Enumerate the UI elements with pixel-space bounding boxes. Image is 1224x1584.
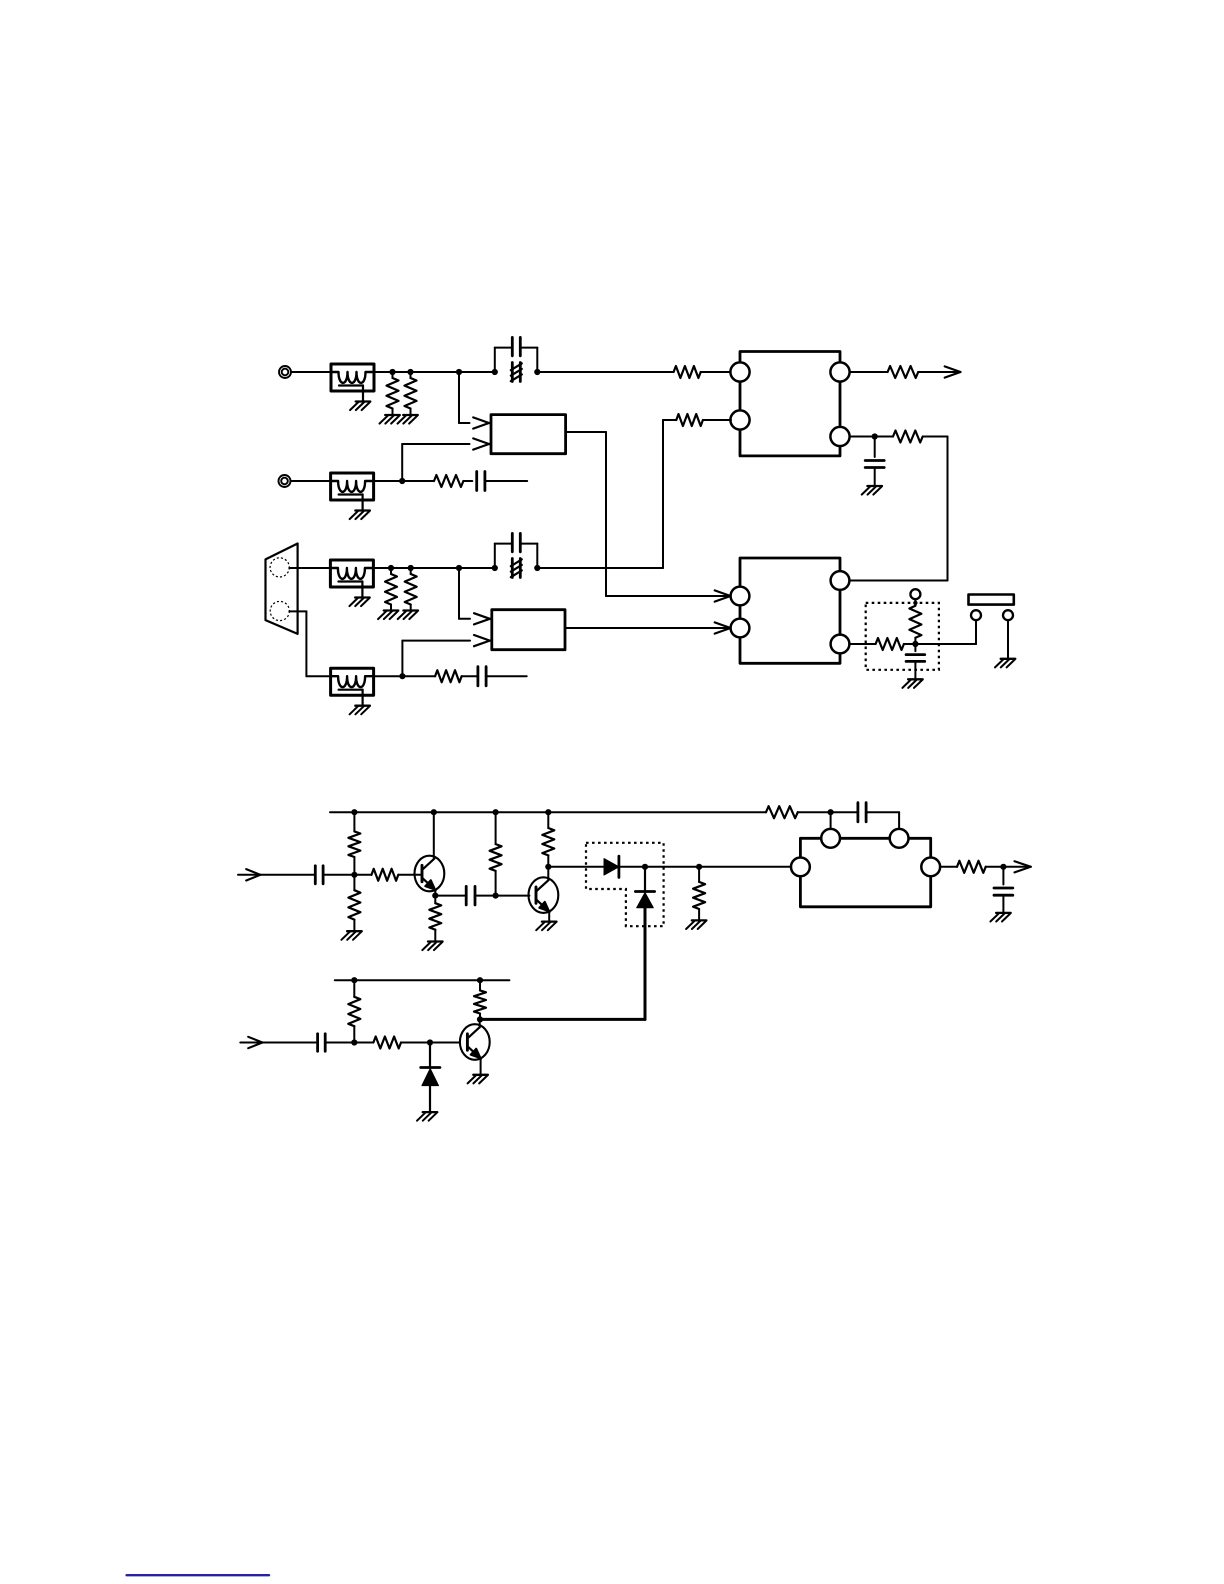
- ground: [422, 942, 442, 951]
- connector J2 (RF input 2): [279, 475, 291, 487]
- wire: [496, 895, 530, 897]
- wire: [701, 371, 731, 373]
- wire: [1007, 620, 1009, 659]
- pin circle FL1-b: [890, 829, 909, 848]
- wire (output 1): [918, 371, 958, 373]
- wire (Q1 collector): [433, 812, 435, 859]
- resistor R17 (Q1 emitter): [429, 896, 441, 942]
- node Q: [493, 893, 499, 899]
- capacitor C8: [315, 866, 323, 884]
- pin circle FL1-in: [791, 858, 810, 877]
- transformer T4: [331, 668, 374, 714]
- wire: [850, 371, 888, 373]
- node T (rail): [545, 809, 551, 815]
- wire (to U1 input 2): [537, 420, 676, 568]
- transformer T3: [330, 560, 373, 606]
- wire (Q3 emitter): [480, 1058, 482, 1075]
- dotted box (filter module): [866, 603, 939, 670]
- pin circle U2-in1: [731, 587, 750, 606]
- pin circle U1-out2: [830, 427, 849, 446]
- node P (emitter): [432, 893, 438, 899]
- resistor R1: [387, 372, 399, 415]
- wire: [374, 480, 434, 482]
- wire (J3 pin2 feed): [289, 611, 330, 676]
- arrow (into U2): [715, 590, 731, 601]
- wire: [374, 371, 495, 373]
- wire (to amp B input 2): [402, 635, 489, 676]
- ground: [862, 486, 882, 495]
- node B (junction R2): [407, 369, 413, 375]
- wire: [850, 436, 893, 438]
- ground: [995, 659, 1015, 668]
- node O (rail): [431, 809, 437, 815]
- transformer T1: [331, 364, 374, 410]
- resistor R24: [474, 980, 486, 1019]
- node AA: [427, 1039, 433, 1045]
- resistor R16 (base series): [372, 869, 399, 881]
- wire: [849, 643, 875, 645]
- resistor R22: [348, 980, 360, 1042]
- node N (rail): [351, 809, 357, 815]
- wire: [462, 675, 478, 677]
- node Y (rail): [477, 977, 483, 983]
- arrow (input 2): [240, 1037, 315, 1048]
- wire (stub): [487, 675, 527, 677]
- switch SW1 bar: [969, 595, 1014, 605]
- wire: [537, 371, 673, 373]
- wire: [291, 371, 331, 373]
- wire (Q2 collector): [547, 867, 549, 881]
- capacitor C6: [906, 644, 925, 679]
- resistor R13 (rail): [766, 806, 798, 818]
- node H (branch to amp B): [456, 565, 462, 571]
- resistor R11: [876, 638, 904, 650]
- terminal circle P1: [971, 610, 981, 620]
- node S (Q2 collector): [545, 864, 551, 870]
- capacitor C7 (rail): [858, 803, 866, 822]
- ground: [398, 415, 418, 424]
- wire: [323, 874, 371, 876]
- resistor R6: [434, 475, 463, 487]
- node M (bias divider): [351, 872, 357, 878]
- resistor R8: [405, 568, 417, 611]
- arrow (RF output): [945, 366, 961, 377]
- wire: [401, 1042, 460, 1044]
- wire: [398, 874, 422, 876]
- capacitor C11: [318, 1034, 326, 1051]
- resistor R21: [957, 861, 986, 873]
- wire: [435, 895, 466, 897]
- resistor R7: [385, 568, 397, 611]
- ground: [417, 1112, 437, 1121]
- transformer T2: [331, 473, 374, 519]
- node C (branch to IF amp): [456, 369, 462, 375]
- filter FL1 (ceramic filter): [800, 838, 930, 907]
- resistor R19: [542, 812, 554, 867]
- resistor R10: [435, 670, 462, 682]
- capacitor C2: [865, 437, 884, 487]
- capacitor C3: [477, 472, 485, 491]
- resistor R23 (base series): [373, 1037, 401, 1049]
- pin circle U1-in2: [730, 410, 749, 429]
- capacitor C5: [478, 667, 486, 686]
- ground: [398, 611, 418, 620]
- pin circle FL1-out: [921, 858, 940, 877]
- wire (Q1 emitter): [434, 890, 436, 896]
- node AB (Q3 collector): [477, 1016, 483, 1022]
- wire (Q2 emitter): [548, 911, 550, 921]
- node L: [828, 809, 834, 815]
- node U (D1/D2 junction): [642, 864, 648, 870]
- node G (junction R8): [408, 565, 414, 571]
- arrow (IF output): [1015, 861, 1031, 872]
- arrow (into U2): [715, 622, 731, 633]
- diode D3: [421, 1043, 440, 1113]
- ground: [536, 922, 556, 931]
- resistor R3: [674, 366, 701, 378]
- wire (stub): [486, 480, 528, 482]
- pin circle U1-out1: [830, 362, 849, 381]
- wire (to amp B input 1): [459, 568, 490, 624]
- resistor R12 (in dotted module): [909, 599, 921, 644]
- pin circle U2-out2: [831, 635, 850, 654]
- wire (D2 to Q3 collector): [480, 908, 645, 1020]
- wire (to U2): [849, 437, 948, 581]
- wire: [619, 866, 645, 868]
- ground: [902, 679, 922, 688]
- footer rule (link underline): [127, 1574, 269, 1576]
- pin circle J3-1: [270, 558, 289, 577]
- wire: [830, 812, 832, 829]
- connector J3 (DIN): [266, 544, 298, 634]
- trap Z1 (ceramic trap + capacitor C1): [492, 337, 541, 381]
- connector J1 (RF input 1): [279, 366, 291, 378]
- diode D2: [635, 867, 654, 908]
- wire: [940, 866, 957, 868]
- wire: [289, 567, 330, 569]
- supply rail (section 2): [330, 812, 899, 829]
- wire: [325, 1042, 373, 1044]
- node V: [696, 864, 702, 870]
- amplifier block A1: [491, 415, 566, 454]
- transistor Q2: [529, 877, 559, 913]
- IC U2 (mixer block 2): [740, 558, 840, 663]
- ground: [378, 611, 398, 620]
- pin circle J3-2: [270, 601, 289, 620]
- node A (junction R1): [389, 369, 395, 375]
- wire: [703, 419, 731, 421]
- pin circle U2-in2: [731, 619, 750, 638]
- resistor R18: [490, 812, 502, 895]
- node E: [399, 478, 405, 484]
- dotted box (AGC diode module): [586, 843, 664, 926]
- wire: [373, 567, 495, 569]
- wire (A2 output): [565, 627, 729, 629]
- wire: [548, 866, 604, 868]
- wire: [374, 675, 436, 677]
- capacitor C9: [466, 886, 475, 905]
- wire (to amp A input 1): [459, 372, 489, 429]
- capacitor C10: [994, 867, 1013, 913]
- resistor R5: [893, 431, 923, 443]
- ground: [990, 913, 1010, 922]
- node J: [912, 641, 918, 647]
- wire: [699, 866, 792, 868]
- node I: [399, 673, 405, 679]
- wire (to amp A input 2): [402, 438, 489, 481]
- wire: [475, 895, 496, 897]
- resistor R4: [888, 366, 919, 378]
- resistor R20: [693, 867, 705, 921]
- trap Z2 (ceramic trap + capacitor C4): [492, 533, 541, 577]
- pin circle U1-in1: [730, 362, 749, 381]
- ground: [380, 415, 400, 424]
- node K: [913, 601, 917, 605]
- terminal circle P3: [1003, 610, 1013, 620]
- resistor R2: [405, 372, 417, 415]
- IC U1 (mixer block): [740, 352, 840, 456]
- pin circle U2-out1: [831, 571, 850, 590]
- diode D1: [604, 856, 619, 877]
- wire: [904, 620, 976, 644]
- node D (junction C2): [872, 433, 878, 439]
- ground: [468, 1075, 488, 1084]
- wire (A1 output): [566, 432, 729, 596]
- pin circle FL1-a: [821, 829, 840, 848]
- resistor R14 (upper bias): [348, 812, 360, 875]
- node W: [1000, 864, 1006, 870]
- wire (Q3 collector): [479, 1019, 481, 1027]
- resistor R9: [676, 414, 703, 426]
- node R (rail): [493, 809, 499, 815]
- resistor R15 (lower bias): [348, 875, 360, 931]
- ground: [341, 931, 361, 940]
- wire: [645, 866, 699, 868]
- arrow (IF input 1): [238, 869, 315, 880]
- transistor Q3: [460, 1024, 490, 1060]
- supply rail (stage 2): [335, 979, 510, 981]
- node Z: [351, 1039, 357, 1045]
- ground: [686, 920, 706, 929]
- terminal circle P2: [910, 589, 920, 599]
- wire: [291, 480, 331, 482]
- transistor Q1: [415, 856, 445, 892]
- wire: [463, 480, 472, 482]
- wire: [986, 866, 1029, 868]
- amplifier block A2: [492, 610, 565, 650]
- node X (rail): [351, 977, 357, 983]
- node F (junction R7): [388, 565, 394, 571]
